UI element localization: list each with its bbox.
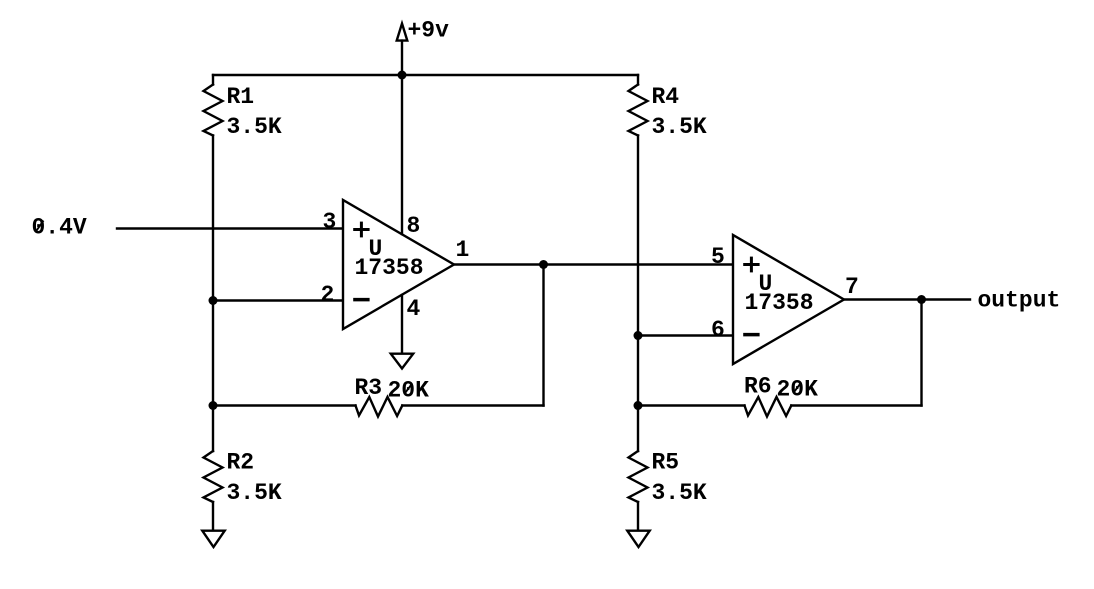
svg-text:3.5K: 3.5K xyxy=(227,480,282,506)
R4 designator label xyxy=(652,84,680,110)
wire R6 left segment xyxy=(638,404,745,406)
resistor R2 xyxy=(204,451,223,502)
junction at output node of U1 xyxy=(539,260,548,269)
svg-text:3: 3 xyxy=(323,209,337,235)
ground symbol (right divider) xyxy=(627,531,649,547)
svg-text:7: 7 xyxy=(845,274,859,300)
op-amp U1b plus input mark xyxy=(743,257,759,273)
svg-text:20K: 20K xyxy=(777,377,819,403)
pin 7 number label xyxy=(845,274,859,300)
pin 2 number label xyxy=(321,282,335,308)
junction at output node of U1b xyxy=(917,295,926,304)
svg-text:R4: R4 xyxy=(652,84,680,110)
op-amp U1 (first half, 7358) xyxy=(343,200,454,329)
svg-text:1: 1 xyxy=(456,237,470,263)
junction at R3 left / divider xyxy=(209,401,218,410)
wire divider midpoint to pin 2 xyxy=(213,299,343,301)
resistor R4 xyxy=(629,85,648,136)
svg-text:3.5K: 3.5K xyxy=(652,114,707,140)
op-amp U1 designator text U xyxy=(369,236,383,262)
svg-text:3.5K: 3.5K xyxy=(227,114,282,140)
op-amp U1b minus input mark xyxy=(743,333,759,337)
svg-text:R5: R5 xyxy=(652,450,680,476)
resistor R5 xyxy=(629,451,648,502)
wire R6 right segment xyxy=(791,404,921,406)
op-amp U1 (second half, 7358) xyxy=(733,235,844,364)
svg-text:5: 5 xyxy=(711,244,725,270)
op-amp U1 value text 17358 xyxy=(355,255,424,281)
junction at divider midpoint xyxy=(209,296,218,305)
wire pin 8 to supply bus xyxy=(401,75,403,234)
op-amp U1 minus input mark xyxy=(353,298,369,302)
R4 value label 3.5K xyxy=(652,114,707,140)
wire R3 left segment xyxy=(213,404,356,406)
resistor R6 xyxy=(745,397,792,417)
resistor R1 xyxy=(204,85,223,136)
R6 designator label xyxy=(744,374,772,400)
R3 designator label xyxy=(355,375,383,401)
wire divider midpoint to pin 6 xyxy=(638,334,733,336)
junction at +9v bus xyxy=(398,71,407,80)
svg-text:17358: 17358 xyxy=(745,290,814,316)
R3 value label 20K xyxy=(388,378,430,404)
svg-text:3.5K: 3.5K xyxy=(652,480,707,506)
pin 6 number label xyxy=(711,317,725,343)
slash in zero of 0.4V label xyxy=(36,221,43,232)
wire feedback vertical (node 1 down to R3) xyxy=(542,265,544,406)
wire op-amp U1 output to pin 5 xyxy=(454,263,733,265)
power +9v arrow symbol xyxy=(397,24,408,76)
R2 designator label xyxy=(227,450,255,476)
wire input 0.4V to pin 3 xyxy=(117,227,343,229)
pin 4 number label xyxy=(407,296,421,322)
svg-text:R2: R2 xyxy=(227,450,255,476)
wire right vertical (R4 bottom to R5 top) xyxy=(637,136,639,452)
svg-text:R3: R3 xyxy=(355,375,383,401)
svg-text:R1: R1 xyxy=(227,84,255,110)
wire R5 to ground xyxy=(637,502,639,530)
wire R2 to ground xyxy=(212,502,214,530)
wire R3 right segment xyxy=(402,404,543,406)
R1 designator label xyxy=(227,84,255,110)
svg-text:6: 6 xyxy=(711,317,725,343)
svg-text:2: 2 xyxy=(321,282,335,308)
wire left vertical (R1 bottom to R2 top) xyxy=(212,136,214,452)
wire right vertical upper xyxy=(637,75,639,85)
op-amp U1b designator text U xyxy=(759,271,773,297)
ground symbol (op-amp U1 pin 4) xyxy=(391,354,413,369)
svg-text:8: 8 xyxy=(407,213,421,239)
pin 5 number label xyxy=(711,244,725,270)
R1 value label 3.5K xyxy=(227,114,282,140)
output net label xyxy=(978,288,1061,314)
wire op-amp output to output terminal xyxy=(844,298,970,300)
+9v net label xyxy=(408,18,450,44)
junction at pin 6 node xyxy=(634,331,643,340)
R5 designator label xyxy=(652,450,680,476)
svg-text:+9v: +9v xyxy=(408,18,450,44)
svg-text:output: output xyxy=(978,288,1061,314)
R2 value label 3.5K xyxy=(227,480,282,506)
pin 3 number label xyxy=(323,209,337,235)
R5 value label 3.5K xyxy=(652,480,707,506)
wire pin 4 to ground xyxy=(401,295,403,352)
pin 1 number label xyxy=(456,237,470,263)
op-amp U1 plus input mark xyxy=(353,222,369,238)
wire top supply bus xyxy=(213,74,638,76)
wire feedback vertical (output down to R6) xyxy=(920,300,922,406)
svg-text:17358: 17358 xyxy=(355,255,424,281)
pin 8 number label xyxy=(407,213,421,239)
wire left vertical upper xyxy=(212,75,214,85)
op-amp U1b value text 17358 xyxy=(745,290,814,316)
svg-text:20K: 20K xyxy=(388,378,430,404)
svg-text:R6: R6 xyxy=(744,374,772,400)
R6 value label 20K xyxy=(777,377,819,403)
resistor R3 xyxy=(356,397,403,417)
svg-text:4: 4 xyxy=(407,296,421,322)
ground symbol (left divider) xyxy=(202,531,224,547)
junction at R6 left / divider xyxy=(634,401,643,410)
input net label 0.4V xyxy=(32,215,87,241)
